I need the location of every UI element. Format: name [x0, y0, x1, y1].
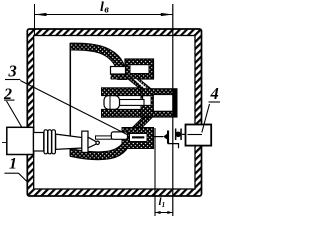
connector bar right [180, 129, 182, 141]
ring collar 2 [48, 130, 52, 154]
leader 3 [20, 81, 128, 136]
axis line inside box 4 [188, 134, 203, 136]
arrowhead l1 right [167, 211, 173, 214]
arrowhead right [161, 13, 173, 16]
piston shaft [120, 100, 145, 106]
underline 2 [4, 99, 15, 101]
connector ball [175, 132, 181, 138]
outlet tube bottom wall (hatched) [102, 109, 142, 117]
arrowhead l1 left [155, 211, 161, 214]
measuring box (hatched) [122, 128, 154, 149]
horn mouth plane (vertical line) [69, 43, 71, 156]
leader 4 [202, 104, 210, 133]
tapered probe body [56, 134, 82, 149]
top coupler box (hatched) [125, 59, 154, 79]
top coupler window [130, 65, 149, 74]
arrowhead left [35, 13, 47, 16]
horn top wall (curved hatched band) [70, 43, 126, 79]
svg-text:4: 4 [210, 84, 219, 103]
box 4 (straddles right wall) [186, 125, 212, 146]
hatch fill below nub [111, 73, 127, 80]
probe tip cone [88, 137, 97, 148]
extension line left (lv) [34, 4, 36, 35]
svg-text:1: 1 [9, 156, 17, 173]
mounting flange through wall [34, 133, 44, 152]
lower duct (hatched parallelogram) [132, 117, 153, 128]
driver box window [153, 95, 173, 112]
capsule insert [111, 132, 127, 139]
outlet tube top wall (hatched) [102, 88, 142, 96]
connector bar left [175, 129, 177, 141]
upper duct (hatched parallelogram) [128, 79, 151, 89]
leader 2 [7, 101, 23, 128]
top component left nub (white) [111, 67, 126, 75]
probe tip ball [96, 141, 99, 144]
valve plate [167, 131, 169, 144]
extension line right (lv and l1) [172, 4, 174, 216]
piston head seam [109, 96, 111, 109]
horn bottom wall (curved hatched band) [70, 144, 126, 160]
probe collar disk [82, 131, 88, 152]
dimension line l1 [155, 212, 173, 214]
driver box notch [143, 96, 151, 106]
svg-text:3: 3 [8, 62, 17, 81]
ring collar 1 [44, 130, 48, 154]
extension line left (l1) [154, 128, 156, 216]
capsule inlet tube [96, 136, 112, 139]
piston head [104, 96, 120, 110]
chamber wall (hatched band between outer and inner rectangle) [27, 29, 201, 196]
wire elbow [168, 140, 178, 148]
driver box right cap [174, 89, 178, 117]
leader 1 [19, 173, 29, 182]
dimension line lv [35, 14, 173, 16]
ring collar 3 [52, 130, 56, 154]
wire to box 4 [182, 133, 186, 135]
membrane slit 3 [132, 136, 144, 138]
driver box (hatched) [141, 89, 177, 117]
valve flare [163, 134, 167, 140]
underline 1 [5, 172, 19, 174]
underline 4 [209, 101, 221, 103]
centerline of microphone axis [2, 142, 100, 144]
measuring box window [130, 134, 148, 142]
sound source housing box 1 [7, 127, 34, 154]
wire from measuring box to valve [154, 136, 163, 138]
underline 3 [5, 79, 20, 81]
